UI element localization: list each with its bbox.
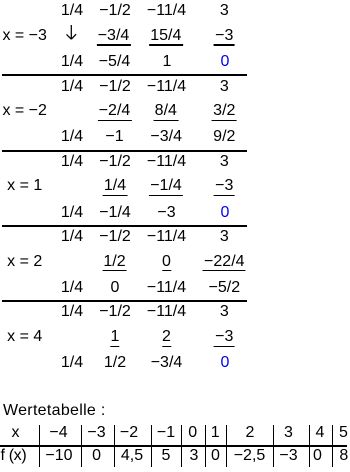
block 1 : x = −3 [61, 3, 83, 19]
arrow [65, 24, 78, 41]
rule above block 3 [2, 150, 247, 152]
rule above block 5 [2, 300, 247, 302]
rule above block 2 [2, 74, 247, 76]
rule above block 4 [2, 225, 247, 227]
value table row1 [12, 425, 20, 441]
table bars [39, 425, 40, 467]
Wertetabelle label [3, 403, 106, 419]
value table row2 [1, 448, 27, 464]
table rule [0, 445, 347, 447]
